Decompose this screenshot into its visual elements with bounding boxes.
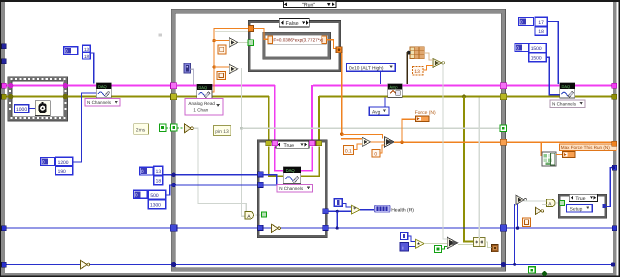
- svg-text:Analog Read: Analog Read: [188, 101, 215, 106]
- setup case selector True: [569, 194, 597, 202]
- svg-text:13: 13: [156, 169, 162, 175]
- setup mini case structure: [558, 194, 607, 218]
- orange wire from read VI up to False case: [211, 28, 249, 93]
- constant 0.1: [344, 145, 354, 154]
- AND gate (setup): [546, 199, 555, 207]
- wire green const to gate: [441, 246, 447, 250]
- blue tunnel outer right edge: [612, 226, 617, 231]
- Max Force This Run (N) label: [560, 144, 617, 150]
- svg-text:pin 13: pin 13: [215, 129, 229, 135]
- olive junction dots on film frame: [8, 94, 13, 99]
- max-select node (double triangle): [384, 137, 394, 148]
- wire cluster C to True case: [166, 184, 259, 195]
- blue tunnel on loop left edge: [170, 225, 177, 231]
- olive tunnel on loop left edge: [171, 94, 177, 100]
- svg-text:190: 190: [58, 169, 66, 175]
- wires to multiply4: [408, 236, 416, 247]
- R constant 2: [217, 71, 226, 79]
- or gate on stop wire inside True: [272, 224, 281, 232]
- Analog Read express VI: [197, 84, 212, 98]
- orange wire into formula node: [253, 28, 268, 40]
- wire 13 to gate: [423, 65, 433, 71]
- svg-text:1500: 1500: [531, 46, 542, 52]
- film sprocket holes: [9, 78, 67, 119]
- green tunnel on setup case left edge: [560, 201, 565, 206]
- green tunnel on True left edge (selector input): [262, 212, 267, 217]
- green tunnel on loop right edge: [500, 125, 507, 132]
- svg-text:N Channels: N Channels: [87, 100, 112, 105]
- green tunnel on loop left edge: [170, 124, 177, 131]
- loop iteration group bottom: small blue n constant: [400, 232, 407, 239]
- long blue wire (stop line) y=228: [3, 227, 613, 228]
- olive tunnel on outer right edge: [612, 94, 617, 99]
- inner loop inside False case: [263, 32, 331, 59]
- Avg combo: [369, 107, 389, 115]
- multiply node 2: [214, 64, 238, 73]
- health chain: vertical to stop wire: [337, 211, 338, 228]
- svg-text:Health (R): Health (R): [391, 207, 414, 213]
- wait until next ms multiple (metronome): [35, 101, 50, 116]
- wires inside True: olive right: [301, 147, 320, 178]
- while loop frame: [171, 9, 505, 271]
- wire cluster A to DAQ VI 1 left: [73, 93, 97, 163]
- AND gate A: [245, 211, 253, 220]
- cluster constant B (13 / 18): [140, 166, 163, 184]
- pink tunnel on outer right edge: [612, 83, 617, 88]
- dark wire from amp VI to grid: [407, 52, 408, 84]
- faint boolean wire from multiply2 down (long vertical x241): [241, 68, 246, 217]
- faint connections to AND gate: [523, 200, 559, 204]
- wire violet icon down to read VI: [190, 69, 194, 85]
- small gray artifact: [159, 34, 162, 37]
- green boolean const small: [434, 245, 441, 252]
- Amp express VI (x-axis scaling): [388, 84, 402, 98]
- greater-equal gate (double triangle): [447, 237, 457, 248]
- faint boolean wire from gate down to bottom cluster: [442, 62, 447, 239]
- wire gate to add-array node: [458, 244, 474, 245]
- free label 2ms: [134, 124, 149, 135]
- Setup combo: [566, 204, 592, 212]
- wire cluster to DAQ VI 1: [90, 53, 94, 84]
- svg-text:17: 17: [538, 20, 544, 26]
- svg-text:Max Force This Run (N): Max Force This Run (N): [561, 145, 610, 150]
- wire 0 to select: [380, 145, 384, 154]
- gate node 2 small: [536, 207, 544, 214]
- iteration terminal i: [400, 242, 409, 251]
- blue tunnel on outer right edge (setup): [612, 165, 617, 170]
- svg-text:0x10 (ALT High): 0x10 (ALT High): [349, 65, 384, 71]
- wire multiply1 out to False green tunnel: [238, 42, 249, 43]
- wire grid to gate: [424, 52, 433, 60]
- olive tunnel on outer left edge: [2, 94, 7, 99]
- svg-text:DAQ: DAQ: [286, 168, 296, 173]
- svg-text:0: 0: [65, 49, 68, 54]
- wire amp VI to Avg combo: [384, 97, 385, 107]
- pink tunnel on loop right edge: [500, 83, 506, 89]
- svg-text:True: True: [575, 196, 585, 202]
- blue tunnel on loop right edge: [500, 225, 507, 231]
- formula express node F=0.0386*exp(3.7727*x): [268, 35, 327, 44]
- svg-text:F=0.0386*exp(3.7727*x): F=0.0386*exp(3.7727*x): [273, 38, 323, 43]
- pink junction dots on film frame: [8, 83, 13, 88]
- orange branch up to Force indicator: [401, 119, 415, 143]
- constant 13 (threshold): [412, 66, 422, 75]
- orange tunnel on False right edge: [336, 47, 342, 53]
- svg-text:1200: 1200: [58, 160, 69, 166]
- blue tunnel outer left edge: [2, 226, 7, 231]
- svg-text:Force (N): Force (N): [415, 110, 436, 116]
- tunnel on outer left edge (navy): [2, 44, 6, 49]
- svg-text:13: 13: [84, 47, 90, 52]
- tunnel on outer left edge (navy): [2, 59, 6, 64]
- boolean constant (green): [159, 124, 166, 132]
- svg-text:0.1: 0.1: [345, 148, 352, 154]
- orange tunnel on outer right edge: [612, 141, 617, 146]
- case selector label "Run": [284, 1, 337, 8]
- svg-text:DAQ: DAQ: [562, 84, 571, 89]
- wire multiply3 to select: [371, 141, 385, 142]
- svg-text:DAQ: DAQ: [198, 85, 207, 90]
- svg-text:Setup: Setup: [570, 206, 583, 212]
- index array grid node: [407, 47, 424, 58]
- combo 0x10 (ALT High): [347, 63, 396, 71]
- wire combo down to amp VI: [380, 71, 381, 84]
- green dashed boolean wire: [166, 127, 185, 129]
- max-value express VI icon: [542, 152, 556, 166]
- svg-text:18: 18: [156, 178, 162, 184]
- blue tunnel outer left edge bottom: [2, 262, 7, 267]
- DAQ assistant express VI 3 (inside True): [283, 167, 301, 184]
- orange tunnel on loop right edge (force wire): [500, 139, 506, 145]
- blue tunnels on True left/right edges (stop wire): [258, 225, 263, 230]
- orange tunnel on False left edge: [248, 25, 253, 31]
- Analog Read 1 Chan combo: [185, 98, 223, 115]
- pink tunnel on outer left edge: [2, 83, 7, 88]
- wires inside True: pink left: [274, 147, 284, 172]
- wire const to add: [342, 203, 351, 208]
- Health (R) indicator: [374, 205, 414, 213]
- wires inside True: olive left: [268, 147, 284, 178]
- blue tunnels on True left edge: [258, 172, 264, 177]
- green tunnel on outer bottom edge: [529, 267, 536, 273]
- svg-text:Amp: Amp: [389, 85, 398, 90]
- blue dot on setup case right edge: [603, 204, 607, 208]
- blue wire gate1 to bottom wire: [514, 204, 515, 265]
- DAQ assistant express VI 2 (right): [560, 83, 575, 98]
- multiply node 3: [362, 137, 370, 146]
- wires clusters to DAQ VI 2: [546, 21, 560, 95]
- blue wire setup case to right edge tunnel: [606, 167, 614, 207]
- feedback/condition brown square: [491, 244, 498, 251]
- health chain: wire from True tunnel: [328, 211, 352, 212]
- svg-text:0: 0: [141, 169, 144, 174]
- numeric constant small (health): [334, 199, 342, 207]
- R constant 1: [218, 45, 226, 54]
- constant 0: [372, 149, 380, 157]
- svg-text:N Channels: N Channels: [552, 101, 577, 106]
- blue wires inside True: [262, 174, 284, 185]
- orange wire False case down to force chain: [341, 53, 342, 135]
- orange wire to select upper input: [341, 134, 383, 139]
- orange wire formula out to right tunnel: [326, 39, 336, 49]
- faint boolean wire x479: [479, 98, 480, 239]
- faint junction dot: [240, 127, 243, 130]
- orange force wire from select output across: [394, 142, 613, 144]
- svg-text:1500: 1500: [531, 55, 542, 61]
- wire add to Health indicator: [360, 209, 376, 210]
- tunnels on True top edge: [266, 141, 272, 146]
- svg-text:18: 18: [538, 29, 544, 35]
- faint line under orange: [215, 31, 249, 32]
- pink tunnel on loop left edge: [171, 83, 177, 89]
- blue wire gate1 to stop wire: [517, 204, 518, 229]
- Force (N) indicator: [415, 116, 429, 122]
- pink wire (main DAQ task) left part: [3, 85, 613, 144]
- blue tunnel on True right edge (health): [323, 209, 328, 214]
- violet control icon (task in): [184, 63, 190, 73]
- orange branch down into max VI: [541, 142, 543, 156]
- svg-text:DAQ: DAQ: [98, 84, 107, 89]
- True selector label: [276, 141, 309, 149]
- top-right array cluster 2 (1500/1500): [515, 43, 546, 61]
- svg-text:True: True: [284, 143, 295, 149]
- wire multiply4 to greater gate: [424, 243, 447, 244]
- svg-text:0: 0: [135, 192, 138, 197]
- wire add node to brown square: [485, 242, 492, 249]
- boolean gate node (arrow): [185, 124, 194, 133]
- False case structure: [248, 21, 340, 72]
- bottom blue wire y=264.5: [3, 264, 613, 265]
- cluster constant C (500 / 1300): [134, 190, 166, 208]
- gate node 1 (before setup case): [516, 195, 527, 204]
- Max Force indicator: [562, 152, 575, 158]
- svg-text:Avg: Avg: [372, 109, 381, 115]
- svg-text:1 Chan: 1 Chan: [193, 108, 208, 113]
- loop corner junction dots: [171, 262, 176, 267]
- olive tunnel on loop right edge: [500, 94, 506, 100]
- wire VI to max force indicator: [556, 154, 562, 155]
- green tunnel on False left edge: [248, 40, 253, 46]
- cluster constant A (1200 / 190): [41, 157, 73, 175]
- add node (health): [351, 205, 360, 214]
- orange B constant: [522, 218, 530, 227]
- free label pin 13: [213, 126, 230, 136]
- N Channels combo 3: [277, 184, 313, 192]
- svg-text:18: 18: [84, 54, 90, 59]
- svg-text:1300: 1300: [150, 202, 161, 208]
- True case structure: [257, 140, 327, 238]
- svg-text:0: 0: [42, 160, 45, 165]
- or gate on bottom wire: [81, 260, 90, 269]
- wires inside True: pink right: [301, 147, 313, 172]
- multiply node 1: [214, 38, 238, 47]
- svg-text:"Run": "Run": [302, 2, 315, 8]
- False selector label: [279, 18, 309, 27]
- svg-text:13: 13: [414, 69, 420, 75]
- comparison gate (greater than): [433, 58, 445, 67]
- wire cluster B to True case: [163, 174, 259, 175]
- svg-text:500: 500: [150, 193, 158, 199]
- svg-text:0: 0: [516, 46, 519, 51]
- orange junction dots: [212, 39, 215, 42]
- dark green dot on bottom edge: [542, 271, 547, 276]
- faint boolean wire to loop right edge green tunnel: [242, 128, 501, 129]
- svg-text:0: 0: [520, 19, 523, 24]
- olive wire (dynamic data) left part: [3, 96, 613, 144]
- wire 1000 to wait: [29, 108, 36, 109]
- multiply node 4: [416, 239, 425, 248]
- top-right array cluster 1 (17/18): [519, 17, 548, 35]
- svg-text:i: i: [402, 245, 403, 251]
- faint boolean wire from gate down to AND gate: [194, 128, 247, 212]
- array constant cluster top-left (values 13/18): [64, 45, 90, 59]
- svg-text:1000: 1000: [16, 107, 27, 113]
- olive branch wire down to add node: [462, 95, 466, 99]
- svg-text:2ms: 2ms: [136, 127, 146, 133]
- film-strip flat sequence structure: [8, 77, 68, 121]
- wire 0.1 to multiply3: [354, 144, 363, 151]
- N Channels combo 1: [85, 99, 120, 107]
- svg-text:0: 0: [374, 152, 377, 158]
- svg-text:False: False: [286, 21, 299, 27]
- AND gate output to True case tunnel: [256, 215, 261, 216]
- add array node: [474, 237, 485, 246]
- N Channels combo 2: [550, 100, 585, 108]
- svg-text:N Channels: N Channels: [279, 186, 304, 191]
- DAQ assistant express VI 1: [96, 83, 111, 98]
- numeric constant 1000: [15, 105, 29, 113]
